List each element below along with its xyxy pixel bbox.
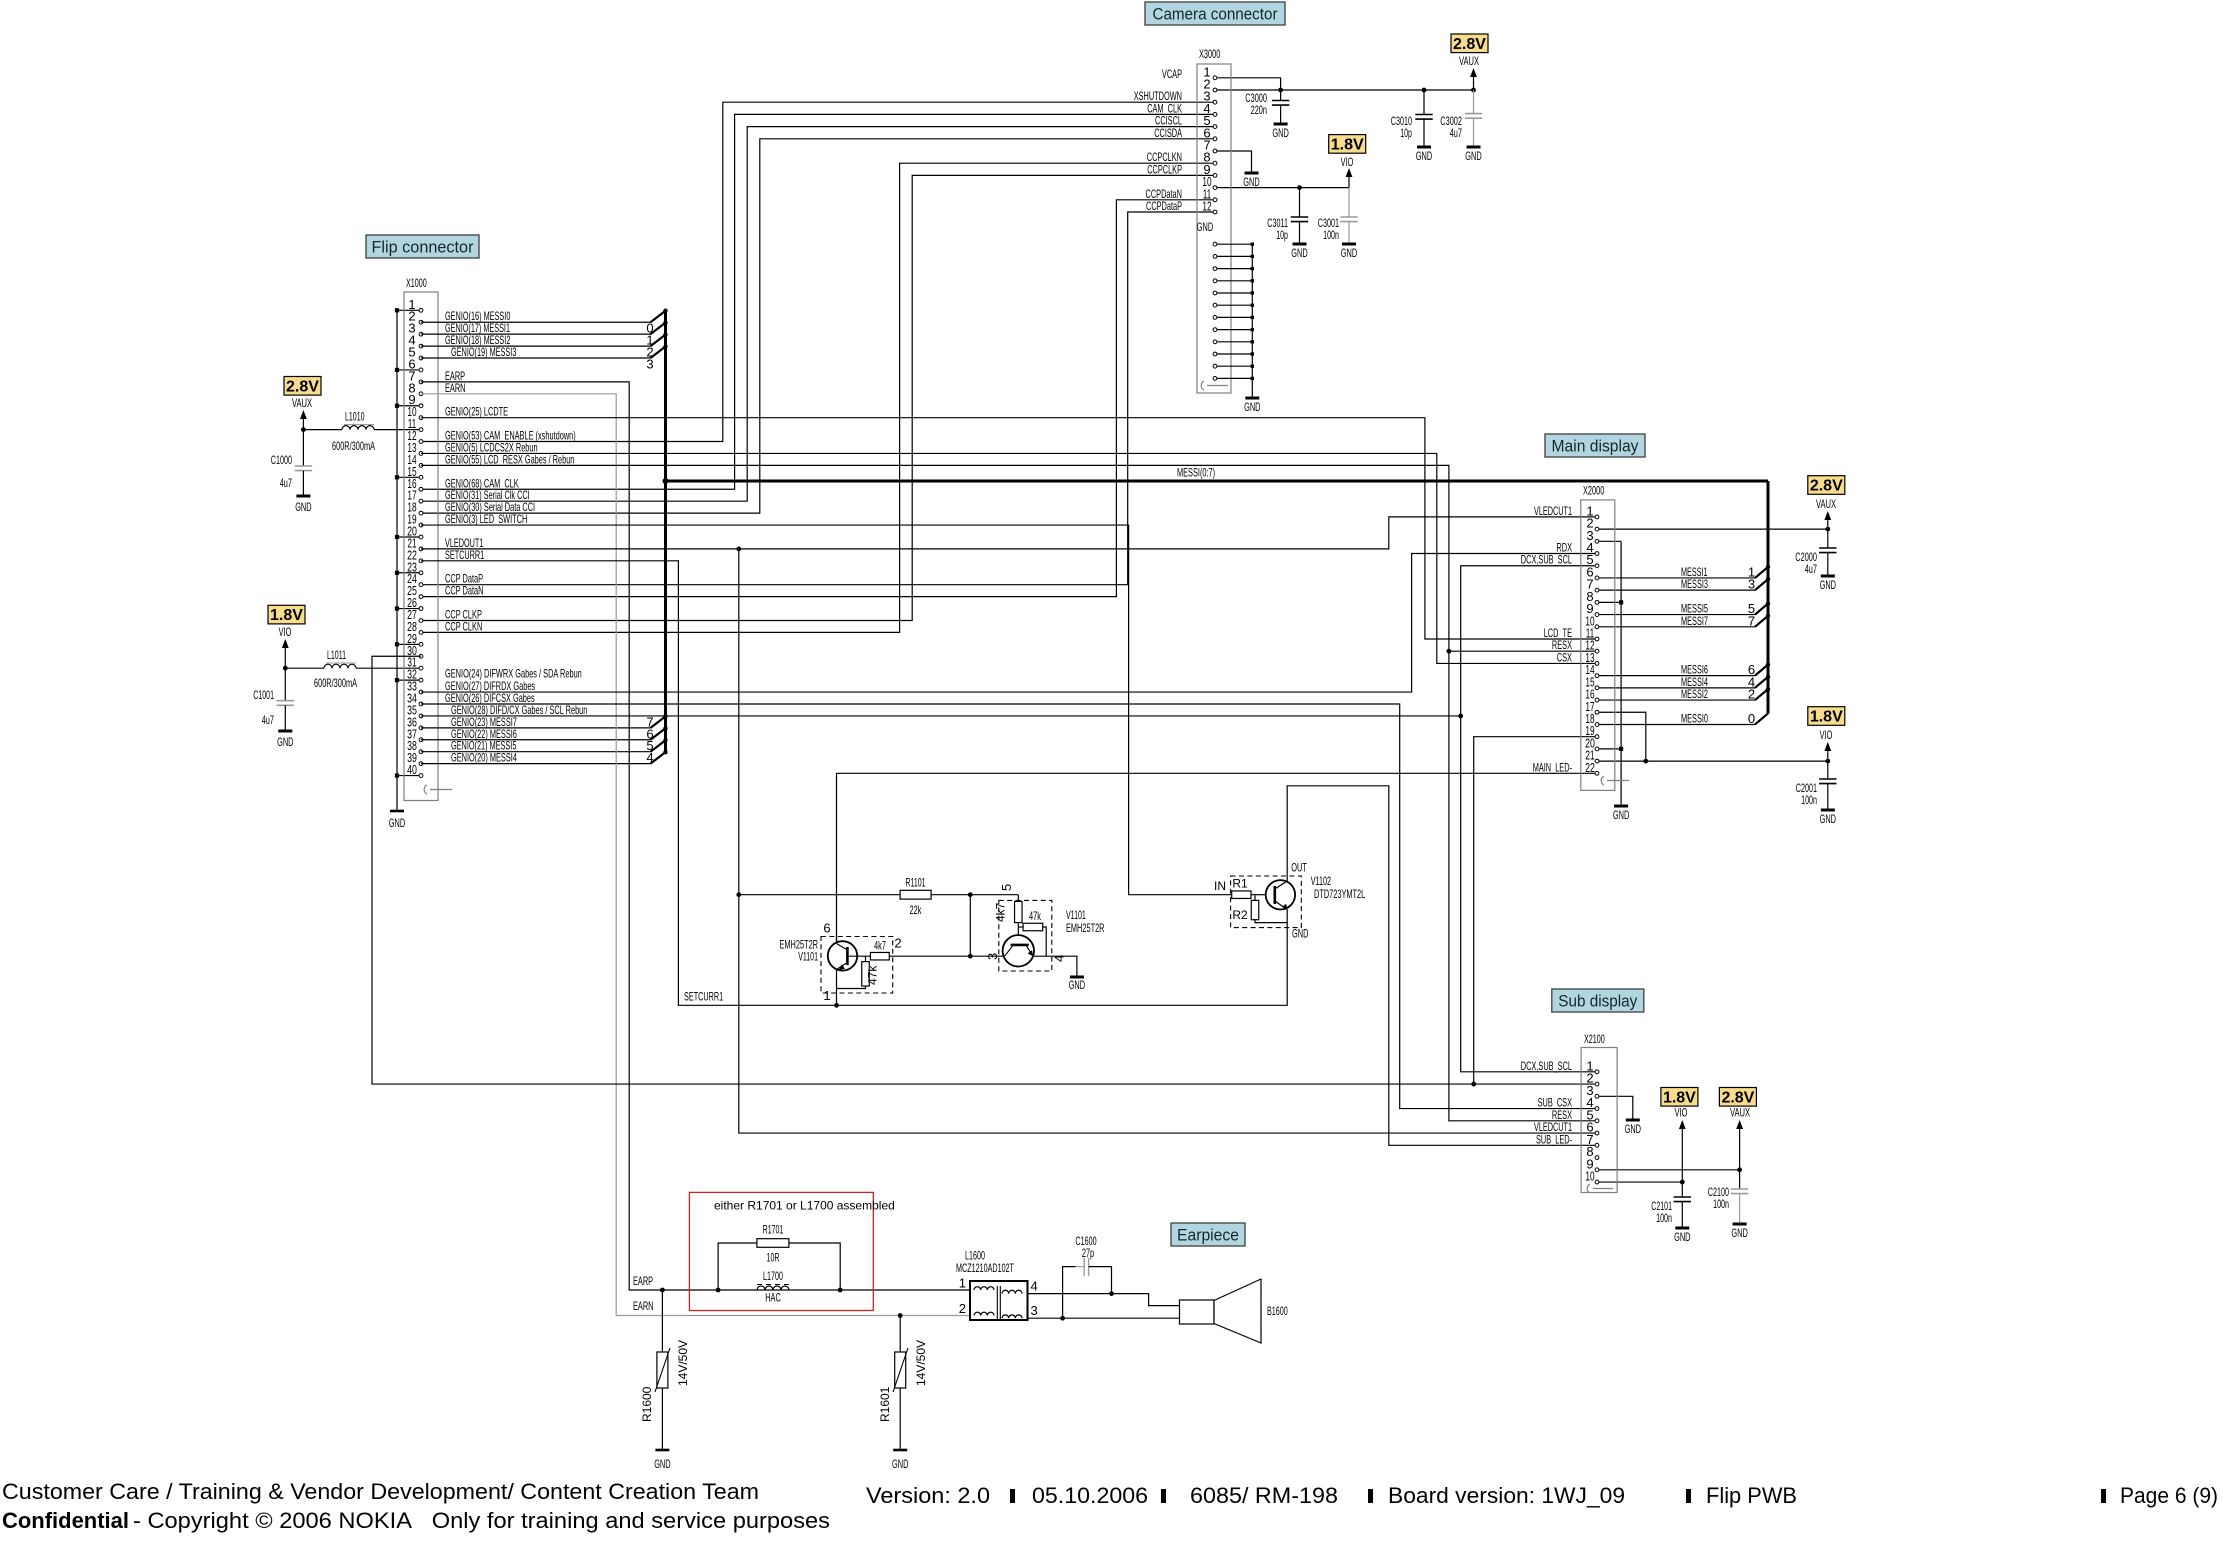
ground below C2100: [1733, 1223, 1747, 1226]
wire EARP: X1000 pin7 down to earpiece: [421, 382, 970, 1290]
capacitor C2000 4u7: [1819, 547, 1836, 549]
svg-text:4k7: 4k7: [874, 939, 886, 953]
svg-text:R2: R2: [1232, 908, 1248, 922]
resistor 47k (V1101a base-emitter): [865, 956, 867, 961]
capacitor C1000 4u7 (grey): [295, 465, 312, 467]
svg-text:GENIO(3) LED_SWITCH: GENIO(3) LED_SWITCH: [445, 512, 527, 526]
connector X1000 tail mark: [424, 785, 427, 794]
wire X1000 pin 6 ground stub: [397, 369, 421, 371]
wire DIFCSX: X1000 pin34 to X2100 pin4 SUB_CSX: [421, 704, 1597, 1109]
speaker B1600: [1180, 1300, 1215, 1324]
section label: Earpiece: [1171, 1223, 1245, 1246]
wire CCPCLKN: X1000 pin28 to X3000 pin8: [421, 163, 1215, 632]
connector X2000 tail mark: [1601, 776, 1604, 785]
svg-text:Customer Care / Training & Ven: Customer Care / Training & Vendor Develo…: [2, 1479, 759, 1504]
junction node RESX at X2000 pin12: [1447, 649, 1452, 654]
junction node VAUX sub: [1737, 1167, 1742, 1172]
svg-text:Camera connector: Camera connector: [1153, 5, 1278, 24]
ground at X2100 pin3: [1626, 1119, 1640, 1122]
ground below C1000: [296, 495, 310, 498]
ground below C2101: [1675, 1227, 1689, 1230]
svg-text:3: 3: [985, 953, 1000, 960]
junction node EARP at R1600: [660, 1288, 665, 1293]
svg-text:GND: GND: [1272, 126, 1289, 140]
junction node R1701 left leg: [716, 1288, 721, 1293]
svg-text:GND: GND: [1820, 578, 1837, 592]
inductor L1011 600R/300mA: [285, 667, 324, 669]
svg-text:GND: GND: [1341, 246, 1358, 260]
wire VIO feed: X1000 pin30 to X2100 pin2: [372, 656, 1597, 1084]
wire CAM_CLK: X1000 pin16 to X3000 pin4: [421, 114, 1215, 489]
svg-text:VIO: VIO: [1675, 1106, 1688, 1120]
wire VIO rail: X3000 pin10 to VIO arrow: [1215, 187, 1349, 189]
svg-text:X2000: X2000: [1583, 484, 1604, 498]
svg-text:05.10.2006: 05.10.2006: [1032, 1483, 1148, 1508]
wire V1101a emitter to SETCURR1: [836, 970, 838, 1006]
wire MESSI6 from X1000 pin 37 to bus: [421, 739, 651, 741]
svg-text:Page 6 (9): Page 6 (9): [2120, 1483, 2218, 1508]
svg-text:2: 2: [894, 936, 901, 951]
svg-text:C1001: C1001: [253, 688, 274, 702]
svg-text:220n: 220n: [1251, 103, 1267, 117]
svg-text:4u7: 4u7: [262, 713, 274, 727]
ground below C1001: [278, 730, 292, 733]
svg-text:MAIN_LED-: MAIN_LED-: [1533, 760, 1572, 774]
svg-text:Version: 2.0: Version: 2.0: [866, 1483, 990, 1508]
resistor 4k7 (V1101a base): [847, 955, 870, 957]
capacitor C2100 100n (grey): [1731, 1188, 1748, 1190]
wire VAUX rail: X3000 pin2 to VAUX arrow: [1215, 89, 1474, 91]
junction node at X2100 pin2 / X2000 pin19 riser: [1471, 1082, 1476, 1087]
svg-text:GND: GND: [1731, 1226, 1748, 1240]
connector X2100 tail mark: [1587, 1184, 1590, 1193]
capacitor C2101 100n: [1674, 1196, 1691, 1198]
junction node on VIO rail at C3011: [1297, 185, 1302, 190]
wire X2000 pin8 ground stub: [1597, 601, 1621, 603]
ground below C2001: [1821, 809, 1835, 812]
svg-text:GND: GND: [1465, 149, 1482, 163]
svg-text:4: 4: [1052, 955, 1067, 962]
ground below C3011: [1293, 243, 1307, 246]
bus MESSI(0:7) horizontal: [666, 480, 1769, 483]
svg-text:Sub display: Sub display: [1558, 992, 1637, 1011]
svg-text:HAC: HAC: [765, 1291, 781, 1305]
junction node VAUX at C2000: [1825, 527, 1830, 532]
svg-text:V1101: V1101: [798, 950, 818, 964]
svg-text:VLEDCUT1: VLEDCUT1: [1534, 504, 1572, 518]
resistor R1701 10R: [718, 1243, 757, 1290]
svg-text:VIO: VIO: [1820, 728, 1833, 742]
svg-text:GND: GND: [1243, 175, 1260, 189]
svg-text:L1011: L1011: [327, 648, 346, 662]
svg-text:R1101: R1101: [905, 876, 925, 890]
svg-text:GND: GND: [1820, 812, 1837, 826]
svg-text:R1600: R1600: [640, 1386, 654, 1422]
svg-text:MESSI3: MESSI3: [1681, 577, 1708, 591]
wire VCAP: X3000 pin1 to VAUX rail: [1215, 78, 1281, 90]
svg-text:7: 7: [1748, 613, 1755, 628]
capacitor C3010 10p: [1423, 90, 1425, 115]
svg-text:CCP CLKN: CCP CLKN: [445, 619, 482, 633]
svg-text:GND: GND: [1416, 149, 1433, 163]
varistor R1600 14V/50V: [661, 1290, 663, 1352]
svg-text:GND: GND: [295, 500, 312, 514]
svg-text:12: 12: [1202, 199, 1211, 214]
ground below X2000: [1614, 805, 1628, 808]
svg-text:R1: R1: [1232, 877, 1248, 891]
connector X3000 (camera connector): [1197, 64, 1231, 393]
svg-text:4u7: 4u7: [1805, 562, 1817, 576]
svg-text:GND: GND: [389, 816, 406, 830]
ground below V1101b: [1070, 976, 1084, 979]
svg-text:6: 6: [823, 921, 830, 936]
svg-text:DTD723YMT2L: DTD723YMT2L: [1314, 887, 1365, 901]
ground below R1600: [655, 1449, 669, 1452]
svg-text:100n: 100n: [1713, 1197, 1729, 1211]
wire X2100 pin10 to VIO: [1597, 1181, 1682, 1183]
wire MAIN_LED-: X2000 pin22 to V1101 collector: [837, 773, 1598, 943]
svg-text:4u7: 4u7: [280, 476, 292, 490]
ground below R1601: [893, 1449, 907, 1452]
wire V1101b emitter to ground: [1033, 956, 1077, 977]
svg-text:4u7: 4u7: [1450, 126, 1462, 140]
svg-text:22: 22: [1585, 760, 1595, 775]
svg-text:3: 3: [646, 357, 653, 372]
svg-text:10p: 10p: [1400, 126, 1412, 140]
power flag 1.8V VIO (flip): [268, 605, 305, 624]
wire X2100 pin3 to ground: [1597, 1096, 1633, 1120]
wire MESSI2: X2000 to bus: [1597, 699, 1755, 701]
capacitor C3001 100n (grey): [1348, 188, 1350, 217]
svg-text:47k: 47k: [866, 965, 880, 985]
svg-text:- Copyright © 2006 NOKIA Onl: - Copyright © 2006 NOKIA Only for traini…: [133, 1508, 830, 1533]
wire X1000 pin 23 ground stub: [397, 572, 421, 574]
svg-text:22k: 22k: [910, 903, 923, 917]
wire X1000 pin 20 ground stub: [397, 536, 421, 538]
svg-text:GND: GND: [1292, 927, 1309, 941]
svg-text:V1101: V1101: [1066, 908, 1086, 922]
transistor V1101 first half (EMH25T2R) pins 6,1,2: [821, 937, 893, 994]
junction node VIO / L1011 / C1001: [283, 666, 288, 671]
power flag 2.8V VAUX (camera): [1451, 34, 1488, 53]
svg-text:VAUX: VAUX: [292, 396, 312, 410]
inductor L1010 600R/300mA: [303, 429, 342, 431]
svg-text:SETCURR1: SETCURR1: [445, 548, 484, 562]
power flag 1.8V VIO (main display): [1808, 707, 1845, 726]
wire DCX,SUB_SCL: X1000 pin35 to X2000 pin5 and X2100 pin1: [1461, 566, 1597, 1072]
wire MESSI0: X2000 to bus: [1597, 723, 1755, 725]
wire X3000 pin7 to ground: [1215, 151, 1252, 173]
wire VLEDOUT1/VLEDCUT1 rail: X1000 pin21 to X2000 pin1: [421, 517, 1597, 549]
wire MESSI7: X2000 to bus: [1597, 626, 1755, 628]
wire MESSI2 from X1000 pin 4 to bus: [421, 345, 651, 347]
svg-text:Earpiece: Earpiece: [1177, 1226, 1239, 1245]
svg-text:2: 2: [959, 1301, 966, 1316]
junction node emitter/SETCURR1: [834, 1003, 839, 1008]
wire X1000 pin 29 ground stub: [397, 643, 421, 645]
wire LED_SWITCH: X1000 pin19 to V1102 input: [421, 525, 1232, 895]
svg-text:10R: 10R: [767, 1251, 780, 1265]
svg-text:DCX,SUB_SCL: DCX,SUB_SCL: [1521, 553, 1572, 567]
svg-text:3: 3: [1748, 577, 1755, 592]
svg-text:2.8V: 2.8V: [1721, 1089, 1754, 1106]
junction node on VAUX rail at C3000: [1278, 88, 1283, 93]
wire MESSI4: X2000 to bus: [1597, 687, 1755, 689]
svg-text:5: 5: [999, 884, 1014, 891]
wire X1000 pin 32 ground stub: [397, 679, 421, 681]
wire MESSI6: X2000 to bus: [1597, 675, 1755, 677]
svg-text:VCAP: VCAP: [1162, 67, 1182, 81]
svg-text:GND: GND: [1625, 1122, 1642, 1136]
junction node on VAUX rail at VAUX/C3002: [1471, 88, 1476, 93]
ground below C3010: [1417, 146, 1431, 149]
wire CCISDA: X1000 pin18 to X3000 pin6: [421, 139, 1215, 513]
svg-text:14V/50V: 14V/50V: [914, 1340, 928, 1386]
svg-text:Board version: 1WJ_09: Board version: 1WJ_09: [1388, 1483, 1625, 1508]
wire MESSI4 from X1000 pin 39 to bus: [421, 763, 651, 765]
svg-text:GENIO(20) MESSI4: GENIO(20) MESSI4: [451, 751, 517, 765]
junction node C1600 bottom: [1060, 1316, 1065, 1321]
svg-text:MESSI2: MESSI2: [1681, 687, 1708, 701]
junction node C1600 top: [1109, 1291, 1114, 1296]
svg-text:VIO: VIO: [279, 625, 292, 639]
transistor V1102 DTD723YMT2L with built-in R1 R2: [1231, 876, 1302, 928]
svg-text:2.8V: 2.8V: [286, 378, 319, 395]
transistor V1101 second half (EMH25T2R) pins 5,3,4: [999, 900, 1052, 971]
svg-text:1.8V: 1.8V: [1663, 1089, 1696, 1106]
power flag 1.8V VIO (camera): [1329, 135, 1366, 154]
svg-text:GND: GND: [1197, 220, 1214, 234]
ground below C3002: [1467, 146, 1481, 149]
wire EARN: X1000 pin8 down to earpiece (grey): [421, 394, 970, 1316]
svg-text:VIO: VIO: [1341, 155, 1354, 169]
wire L1600 pin3 to speaker: [1028, 1317, 1180, 1319]
svg-text:MESSI0: MESSI0: [1681, 711, 1708, 725]
svg-text:GENIO(55) LCD_RESX Gabes / Reb: GENIO(55) LCD_RESX Gabes / Rebun: [445, 452, 574, 466]
wire V1102 collector OUT to X2100 SUB_LED-: [1287, 786, 1597, 1146]
svg-text:R1701: R1701: [763, 1223, 784, 1237]
wire V1101a collector to MAIN_LED-: [836, 937, 838, 944]
svg-text:4: 4: [646, 750, 653, 765]
svg-text:MESSI(0:7): MESSI(0:7): [1177, 466, 1215, 480]
junction node VIO sub: [1680, 1180, 1685, 1185]
wire X1000 pin 15 ground stub: [397, 476, 421, 478]
section label: Main display: [1545, 434, 1645, 457]
svg-text:GND: GND: [1244, 400, 1261, 414]
svg-text:X1000: X1000: [406, 276, 427, 290]
wire MESSI7 from X1000 pin 36 to bus: [421, 727, 651, 729]
svg-text:6085/ RM-198: 6085/ RM-198: [1190, 1483, 1338, 1508]
svg-text:1: 1: [823, 988, 830, 1003]
ground below C2000: [1821, 575, 1835, 578]
wire CCPDataN: X1000 pin25 to X3000 pin11: [421, 200, 1215, 597]
svg-text:L1700: L1700: [763, 1269, 783, 1283]
X1000 grounded-pin bus on left side: [396, 310, 398, 811]
ground below C3000: [1274, 123, 1288, 126]
junction node EARN at R1601: [898, 1313, 903, 1318]
svg-text:SETCURR1: SETCURR1: [684, 990, 723, 1004]
power flag 2.8V VAUX (flip): [284, 377, 321, 396]
wire RESX: X1000 pin14 to X2000 pin12 and X2100 pin5: [421, 465, 1597, 1120]
wire V1101b collector to node: [1003, 955, 1005, 957]
svg-text:GND: GND: [1613, 808, 1630, 822]
svg-text:CSX: CSX: [1557, 650, 1572, 664]
svg-text:X3000: X3000: [1199, 47, 1220, 61]
X3000 ground pin field wires: [1215, 243, 1252, 245]
junction node riser at R1101: [736, 892, 741, 897]
svg-text:L1010: L1010: [345, 410, 365, 424]
connector X3000 tail mark: [1201, 381, 1204, 390]
connector X1000 (flip connector): [404, 292, 438, 801]
wire VLEDCUT1 riser: down to R1101 and X2100 pin6: [739, 549, 1597, 1133]
wire X2000 pin19 down to X2100 pin2 line: [1474, 737, 1597, 1084]
svg-text:SUB_LED-: SUB_LED-: [1536, 1132, 1572, 1146]
capacitor C1001 4u7 (grey): [277, 700, 294, 702]
section label: Sub display: [1552, 989, 1644, 1012]
junction node VAUX / L1010 / C1000: [301, 427, 306, 432]
svg-text:VAUX: VAUX: [1730, 1106, 1750, 1120]
wire X1000 pin 40 ground stub: [397, 775, 421, 777]
capacitor C3011 10p: [1299, 188, 1301, 217]
svg-text:GND: GND: [1674, 1230, 1691, 1244]
wire MESSI1 from X1000 pin 3 to bus: [421, 333, 651, 335]
wire MESSI1: X2000 to bus: [1597, 577, 1755, 579]
wire X2000 pin3 to ground bus: [1597, 540, 1621, 542]
wire R1101 to V1101 pin3 node: [970, 895, 1003, 957]
junction node R1101 output split: [968, 892, 973, 897]
svg-text:CCPCLKP: CCPCLKP: [1147, 162, 1182, 176]
svg-text:EMH25T2R: EMH25T2R: [1066, 921, 1105, 935]
svg-text:MESSI7: MESSI7: [1681, 614, 1708, 628]
svg-text:IN: IN: [1214, 879, 1226, 893]
wire CCPCLKP: X1000 pin27 to X3000 pin9: [421, 175, 1215, 620]
svg-text:CCPDataP: CCPDataP: [1146, 199, 1182, 213]
wire SETCURR1: X1000 pin22 to LED driver: [421, 561, 1287, 1005]
wire X2000 pin20 ground stub: [1597, 748, 1621, 750]
connector X2000 (main display): [1581, 500, 1615, 791]
svg-text:CCP DataN: CCP DataN: [445, 584, 484, 598]
svg-text:1.8V: 1.8V: [1810, 709, 1843, 726]
svg-text:1.8V: 1.8V: [270, 607, 303, 624]
resistor R1101 22k: [739, 894, 900, 896]
junction node VIO at C2001: [1825, 759, 1830, 764]
svg-text:600R/300mA: 600R/300mA: [332, 439, 375, 453]
wire X2000 pin2 to VAUX rail: [1597, 528, 1828, 530]
power flag 2.8V VAUX (sub display): [1719, 1088, 1756, 1107]
svg-text:27p: 27p: [1082, 1246, 1094, 1260]
wire X1000 pin 1 ground stub: [397, 309, 421, 311]
svg-text:Flip PWB: Flip PWB: [1706, 1483, 1797, 1508]
svg-text:600R/300mA: 600R/300mA: [314, 676, 357, 690]
svg-text:EARN: EARN: [633, 1299, 654, 1313]
svg-text:47k: 47k: [1029, 909, 1042, 923]
inductor L1700 HAC (on EARP line): [757, 1284, 789, 1286]
svg-text:B1600: B1600: [1267, 1304, 1288, 1318]
svg-text:3: 3: [1031, 1303, 1038, 1318]
junction node VLEDOUT1 at LED driver riser: [736, 547, 741, 552]
wire MESSI3 from X1000 pin 5 to bus: [421, 357, 651, 359]
wire X2100 pin9 to VAUX: [1597, 1169, 1740, 1171]
svg-text:1.8V: 1.8V: [1331, 136, 1364, 153]
junction node pin17/pin21: [1643, 759, 1648, 764]
annotation box: either R1701 or L1700 assembled: [689, 1192, 873, 1310]
wire MESSI5: X2000 to bus: [1597, 614, 1755, 616]
svg-text:X2100: X2100: [1584, 1032, 1605, 1046]
resistor R1 (V1102): [1232, 891, 1251, 899]
resistor R2 (V1102): [1254, 895, 1256, 900]
svg-text:EARN: EARN: [445, 381, 466, 395]
svg-text:100n: 100n: [1801, 793, 1817, 807]
section label: Flip connector: [366, 235, 479, 258]
wire LCD_TE: X1000 pin10 to X2000 pin11: [421, 418, 1597, 639]
svg-text:GND: GND: [277, 735, 294, 749]
svg-text:10: 10: [1585, 1169, 1594, 1184]
svg-text:Main display: Main display: [1552, 437, 1639, 456]
svg-text:R1601: R1601: [878, 1386, 892, 1422]
svg-text:EARP: EARP: [633, 1274, 653, 1288]
svg-text:DCX,SUB_SCL: DCX,SUB_SCL: [1521, 1059, 1572, 1073]
power flag 1.8V VIO (sub display): [1661, 1088, 1698, 1107]
capacitor C2001 100n: [1819, 778, 1836, 780]
ground at X3000 pin7: [1245, 172, 1259, 175]
ground below C3001: [1342, 243, 1356, 246]
svg-text:V1102: V1102: [1311, 874, 1331, 888]
svg-text:either R1701 or L1700 assemble: either R1701 or L1700 assembled: [714, 1199, 895, 1213]
ground below X3000 pin field: [1245, 397, 1259, 400]
varistor R1601 14V/50V: [899, 1316, 901, 1353]
svg-text:2.8V: 2.8V: [1810, 478, 1843, 495]
svg-text:4: 4: [1031, 1279, 1038, 1294]
wire RDX: X1000 pin33 to X2000 pin4: [421, 554, 1597, 693]
svg-text:100n: 100n: [1323, 228, 1339, 242]
resistor 4k7 vertical (V1101b base): [1017, 895, 1019, 902]
junction node R1701 right leg: [838, 1288, 843, 1293]
svg-text:GENIO(19) MESSI3: GENIO(19) MESSI3: [451, 345, 517, 359]
wire X1000 pin 26 ground stub: [397, 608, 421, 610]
svg-text:OUT: OUT: [1291, 861, 1307, 875]
power flag 2.8V VAUX (main display): [1808, 476, 1845, 495]
svg-text:GENIO(25) LCDTE: GENIO(25) LCDTE: [445, 405, 508, 419]
section label: Camera connector: [1145, 2, 1285, 25]
svg-text:VAUX: VAUX: [1459, 54, 1479, 68]
capacitor C3002 4u7 (grey): [1473, 90, 1475, 114]
svg-text:GND: GND: [1069, 978, 1086, 992]
wire MESSI5 from X1000 pin 38 to bus: [421, 751, 651, 753]
wire X2000 pin17 to VIO rail: [1597, 712, 1646, 761]
wire MESSI3: X2000 to bus: [1597, 589, 1755, 591]
svg-text:GND: GND: [1291, 246, 1308, 260]
svg-text:GND: GND: [654, 1457, 671, 1471]
bus MESSI vertical (right): [1767, 481, 1770, 714]
svg-text:Confidential: Confidential: [2, 1508, 129, 1533]
wire MESSI0 from X1000 pin 2 to bus: [421, 321, 651, 323]
svg-text:MCZ1210AD102T: MCZ1210AD102T: [956, 1261, 1014, 1275]
wire L1600 pin4 to speaker: [1028, 1294, 1180, 1306]
wire X2000 pin21 to VIO rail: [1597, 760, 1828, 762]
svg-text:Flip connector: Flip connector: [372, 238, 474, 257]
wire CCISCL: X1000 pin17 to X3000 pin5: [421, 127, 1215, 502]
connector X2100 (sub display): [1581, 1048, 1617, 1193]
wire XSHUTDOWN: X1000 pin12 to X3000 pin3: [421, 102, 1215, 441]
resistor 47k horizontal (V1101b): [1018, 926, 1023, 928]
svg-text:2: 2: [1748, 687, 1755, 702]
wire CSX: X1000 pin13 to X2000 pin13: [421, 453, 1597, 663]
svg-text:40: 40: [407, 762, 417, 777]
svg-text:GND: GND: [892, 1457, 909, 1471]
svg-text:0: 0: [1748, 711, 1755, 726]
svg-text:C1000: C1000: [271, 453, 292, 467]
junction node on VAUX rail at C3010: [1422, 88, 1427, 93]
